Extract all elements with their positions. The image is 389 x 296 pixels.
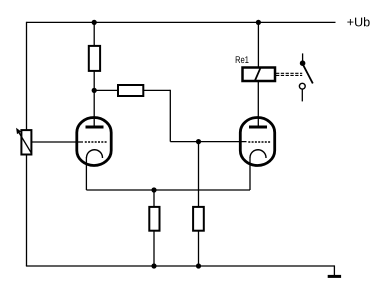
relay coil Re1 (243, 68, 276, 82)
wire cathode line (86, 189, 250, 191)
label +Ub (347, 17, 369, 26)
resistor R2 coupling resistor (118, 85, 143, 96)
wire anode node to coupling resistor (94, 89, 118, 91)
node V2 grid junction dot (196, 139, 201, 144)
wire bottom rail (26, 265, 335, 267)
wire V2 cathode down (249, 157, 251, 190)
ground (328, 275, 341, 278)
wire dashed relay actuation link (276, 73, 302, 75)
node top rail junction dot right (256, 20, 261, 25)
resistor R3 cathode resistor (149, 190, 159, 266)
triode V1 (77, 118, 111, 166)
switch S1 (299, 53, 312, 101)
wire grid node down to grid resistor (198, 142, 200, 207)
wire potentiometer wiper to V1 grid (31, 141, 83, 143)
resistor R1 anode resistor (89, 22, 100, 91)
wire corner down to V2 grid line (169, 90, 171, 142)
wire ground drop (333, 265, 335, 275)
wire V1 cathode down (85, 157, 87, 190)
wire left vertical from top rail to potentiometer (26, 22, 28, 131)
potentiometer P1 (17, 129, 32, 155)
wire to V2 grid (170, 141, 246, 143)
wire anode V1 into tube (93, 90, 95, 127)
node anode V1 junction dot (92, 88, 97, 93)
triode V2 (240, 118, 274, 166)
wire top rail to relay (257, 22, 259, 67)
node cathode junction dot (151, 187, 156, 192)
resistor R4 grid resistor (193, 207, 204, 266)
node top rail junction dot left (92, 20, 97, 25)
wire coupling resistor to corner (143, 89, 170, 91)
node cathode resistor bottom rail dot (151, 263, 156, 268)
label Re1 (236, 56, 249, 63)
wire potentiometer bottom to bottom rail (26, 154, 28, 266)
wire top rail +Ub (27, 21, 336, 23)
node grid resistor to bottom rail dot (196, 263, 201, 268)
wire relay to V2 anode (257, 81, 259, 127)
